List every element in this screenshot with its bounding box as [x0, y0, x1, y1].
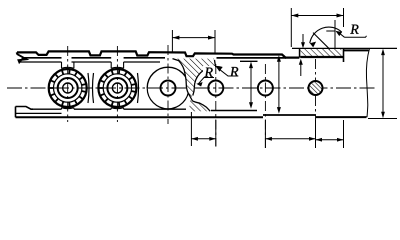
roller bosses / stems: [62, 62, 124, 109]
plate waist arcs between rollers: [88, 73, 139, 103]
vertical dim B x278.9: [277, 55, 281, 113]
bottom rail top line y109.2: [31, 109, 257, 110]
arch arcs over/under rollers: [62, 67, 124, 108]
R3 label + leader: [345, 36, 367, 38]
bottom rail bottom edge: [16, 116, 264, 118]
dome arc (R radius feature) over strip: [310, 27, 342, 43]
vertical dim A x252.3: [249, 62, 253, 109]
dimension D1: [172, 30, 215, 53]
pin c6 hatched: [309, 81, 323, 95]
R2 label + leader: [218, 68, 239, 76]
horizontal centerline: [7, 87, 376, 89]
bottom rail mid line y113.4 left: [16, 112, 62, 114]
circle c5: [258, 81, 273, 96]
vertical centerlines: [68, 45, 316, 148]
left break zigzag top: [17, 52, 27, 62]
big right vertical dimension: [381, 49, 385, 119]
strip thickness dim arrows: [299, 34, 305, 76]
top rail top edge profile: [17, 51, 299, 57]
bottom rail boot (left end): [16, 107, 34, 110]
roller 2: [98, 69, 136, 107]
wavy break line right: [366, 48, 369, 117]
hatched strip top right: [300, 48, 341, 56]
circle c4: [208, 81, 223, 96]
rail inner line y62 segments: [19, 60, 258, 63]
dimension D2: [291, 8, 343, 47]
section bottom edge mid: [263, 114, 316, 116]
R1 label + leader: [203, 66, 215, 79]
rail lower edge y57.8 segments: [23, 57, 286, 59]
bushing circle c3 with arch: [161, 81, 176, 96]
top rail step up to hatched strip: [299, 48, 301, 57]
bottom dimensions: [191, 112, 343, 148]
roller 1: [49, 69, 87, 107]
section web hatched between c3 and c4: [173, 59, 216, 112]
